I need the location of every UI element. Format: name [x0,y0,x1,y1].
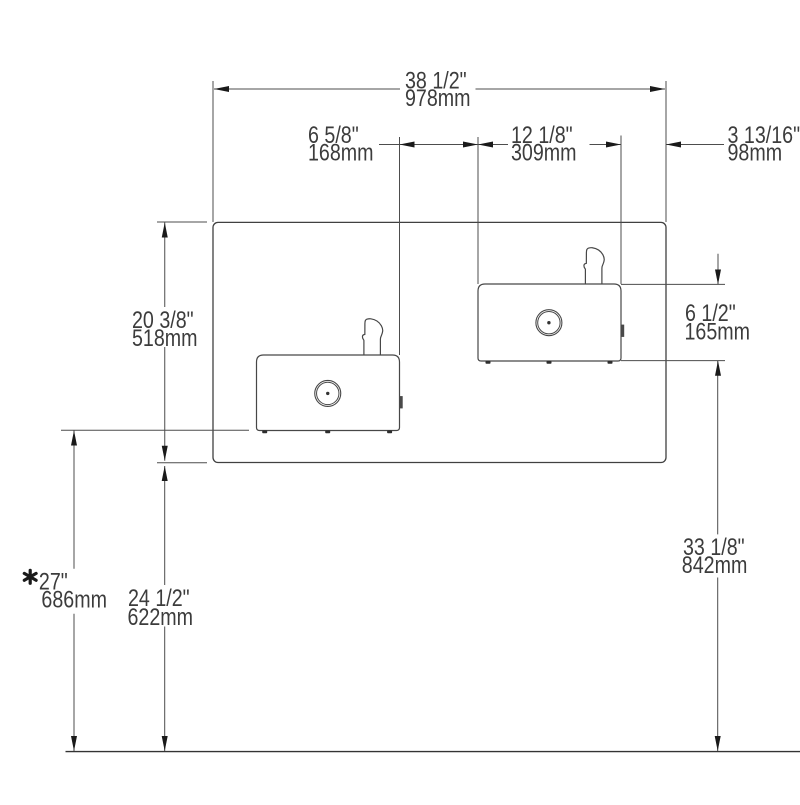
svg-text:98mm: 98mm [728,139,783,166]
svg-text:518mm: 518mm [132,324,198,351]
svg-text:168mm: 168mm [308,139,374,166]
svg-text:842mm: 842mm [682,551,748,578]
svg-text:686mm: 686mm [41,586,107,613]
svg-text:622mm: 622mm [128,603,194,630]
svg-text:309mm: 309mm [511,139,577,166]
svg-text:165mm: 165mm [685,318,751,345]
svg-text:978mm: 978mm [405,84,471,111]
